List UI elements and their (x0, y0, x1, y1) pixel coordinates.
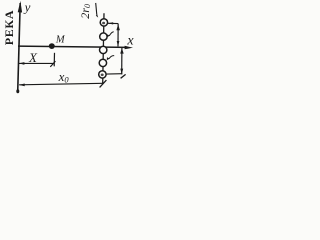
bank line bottom foot (16, 89, 19, 93)
circle C1 (100, 19, 107, 26)
X dimension line (19, 62, 54, 64)
svg-text:M: M (55, 35, 66, 46)
X0 slash termination (100, 80, 107, 87)
2r0 leader line (96, 3, 97, 15)
x-axis arrowhead (125, 46, 133, 50)
X dimension extension line under M (53, 53, 55, 67)
l dimension line 1 (117, 24, 119, 47)
l dim 1 top arrowhead (116, 24, 120, 30)
X0 dimension left arrowhead (19, 84, 25, 87)
svg-text:РЕКА: РЕКА (2, 10, 16, 46)
circle C5 (99, 71, 106, 78)
l dimension line 2 (121, 48, 123, 74)
C1 extension left arrowhead (108, 22, 113, 24)
river bank / y-axis line (18, 3, 21, 92)
label l (lower) (107, 57, 110, 60)
circle C3 (100, 46, 107, 53)
X dimension slash termination (50, 61, 55, 67)
y-axis arrowhead (18, 1, 22, 13)
point M dot (49, 43, 55, 49)
l dim 2 bottom slash (121, 74, 126, 78)
2r0 leader arrowhead (96, 14, 98, 17)
circle C5 extension line (106, 73, 122, 75)
l dim 1 bottom arrowhead (117, 41, 120, 46)
circle C2 (100, 33, 107, 40)
svg-text:X: X (28, 50, 38, 65)
label l (upper) (107, 34, 110, 37)
x-axis (18, 46, 128, 47)
C1 inner smudge (102, 22, 105, 25)
circle C4 (99, 59, 106, 66)
vortex column line (103, 13, 104, 83)
circle C1 extension line (108, 22, 118, 24)
svg-text:x: x (126, 34, 134, 49)
svg-text:y: y (23, 0, 31, 15)
C5 inner smudge (101, 74, 104, 77)
X0 dimension line (19, 83, 103, 85)
l dim 2 top arrowhead (120, 48, 124, 54)
X dimension left arrowhead (19, 62, 25, 65)
l dim 2 bottom arrowhead (120, 69, 123, 75)
